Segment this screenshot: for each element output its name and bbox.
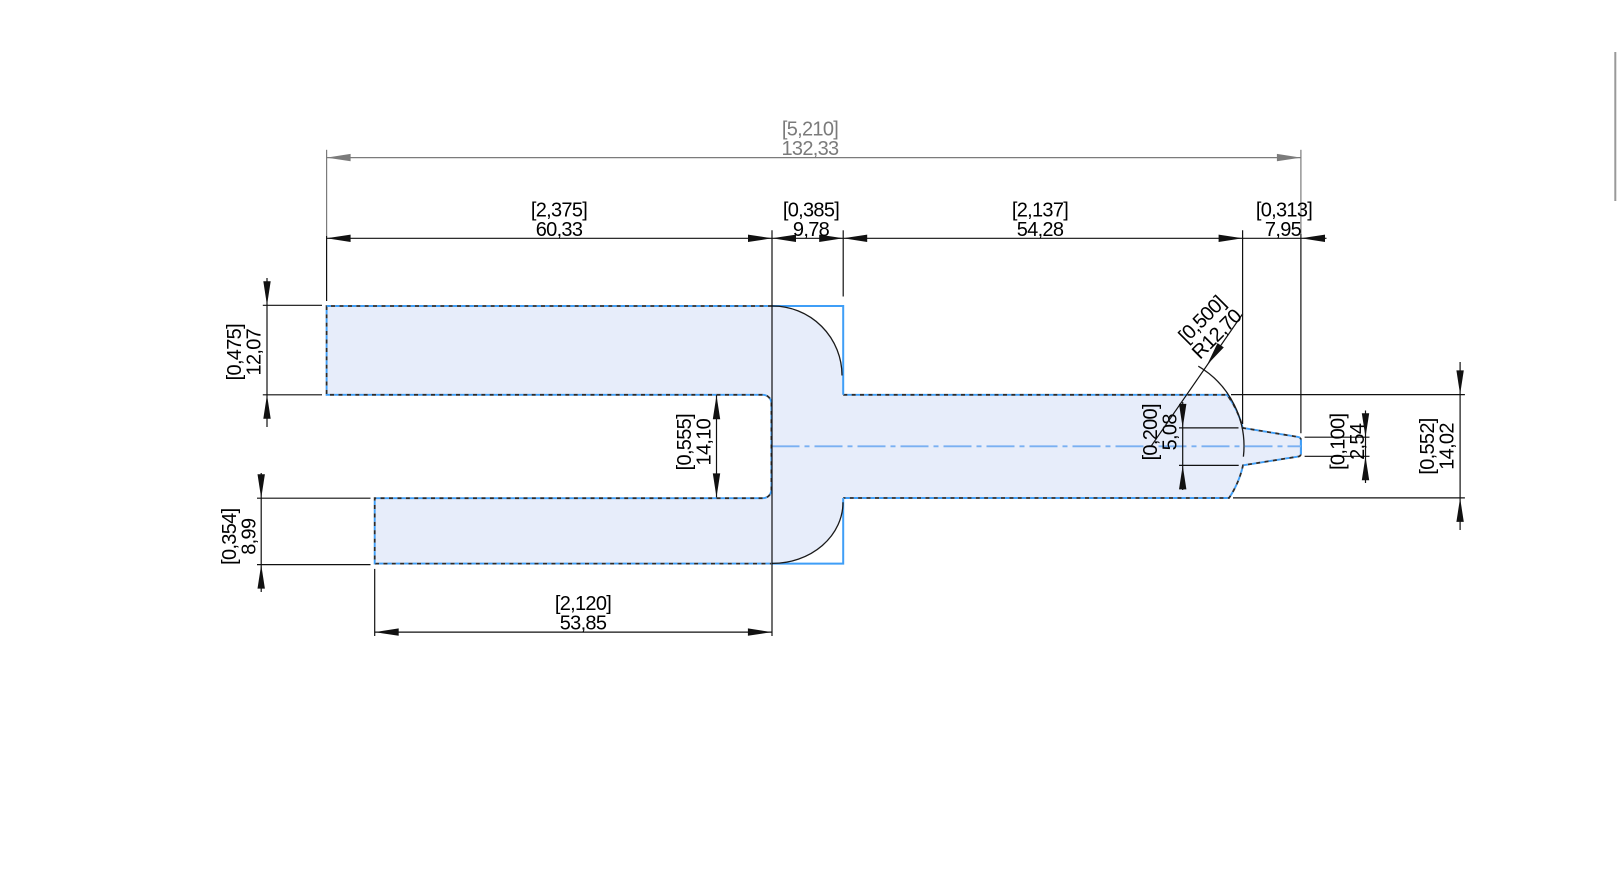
svg-text:14,10: 14,10	[693, 418, 715, 465]
svg-text:12,07: 12,07	[244, 328, 266, 375]
scrollbar thumb	[1614, 52, 1616, 201]
dimension [0,385]/9,78 text	[783, 199, 839, 241]
dimension [5,210]/132,33 overall (grey reference)	[327, 150, 1301, 236]
silhouette corner top (solid blue sketch lines)	[772, 306, 843, 395]
dimension [0,354]/8,99 left bottom arm	[257, 473, 371, 592]
svg-text:8,99: 8,99	[239, 518, 261, 555]
centerline (dash-dot)	[772, 445, 1301, 447]
svg-text:5,08: 5,08	[1160, 414, 1182, 451]
dimension row y=238: extension lines	[327, 230, 1301, 636]
dimension [2,137]/54,28 text	[1012, 199, 1068, 241]
svg-text:7,95: 7,95	[1265, 219, 1302, 241]
part outline: fork arms and slot (dashed selected edge)	[327, 306, 772, 564]
fillet edge arc bottom (black)	[773, 502, 844, 563]
radius dimension [0,500]/R12,70 leader	[1151, 314, 1243, 447]
dimension [0,313]/7,95 text	[1256, 199, 1312, 241]
svg-text:60,33: 60,33	[536, 219, 583, 241]
fillet edge arc top (black)	[773, 306, 843, 376]
dimension [2,375]/60,33 text	[531, 199, 587, 241]
svg-text:9,78: 9,78	[793, 219, 830, 241]
svg-text:2,54: 2,54	[1347, 423, 1369, 460]
silhouette corner bottom (solid blue sketch lines)	[771, 498, 843, 564]
svg-text:54,28: 54,28	[1017, 219, 1064, 241]
dimension [0,555]/14,10 slot	[713, 395, 720, 497]
R12.70 arc (black, extended)	[1198, 366, 1244, 457]
dimension [0,100]/2,54 tip	[1305, 411, 1370, 484]
dimension [0,552]/14,02 right	[1231, 362, 1465, 530]
part cross-section fill	[327, 306, 1301, 564]
dimension [2,120]/53,85 bottom	[375, 569, 772, 636]
part outline: shaft, dome and tip (dashed selected edge)	[843, 395, 1301, 498]
svg-text:14,02: 14,02	[1437, 423, 1459, 470]
dimension line row y=238 with arrows	[327, 235, 1327, 242]
svg-text:132,33: 132,33	[782, 138, 840, 160]
tip end edge (solid blue)	[1300, 440, 1302, 455]
dimension [0,475]/12,07 left top arm	[263, 278, 322, 427]
dimension [0,200]/5,08 taper root	[1179, 402, 1239, 490]
svg-text:53,85: 53,85	[560, 613, 607, 635]
